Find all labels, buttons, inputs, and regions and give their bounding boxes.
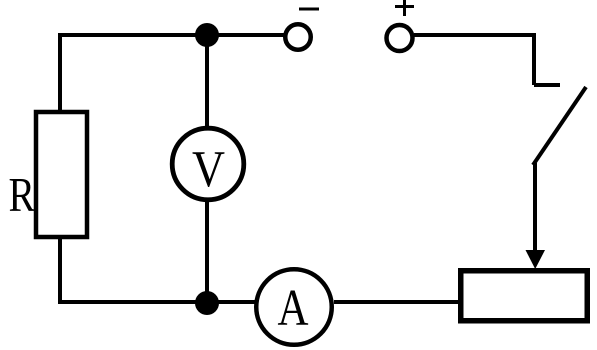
svg-text:V: V bbox=[192, 141, 225, 198]
svg-text:A: A bbox=[278, 280, 309, 337]
svg-text:R: R bbox=[9, 167, 36, 222]
